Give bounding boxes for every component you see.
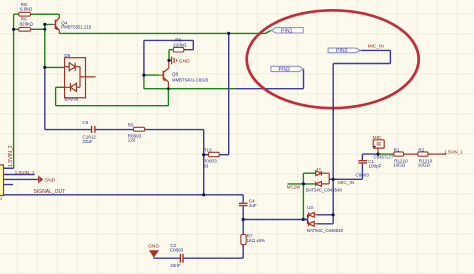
svg-text:MIC_IN: MIC_IN: [368, 43, 385, 49]
svg-text:C0457277: C0457277: [374, 155, 394, 160]
svg-text:10GΩ: 10GΩ: [393, 163, 406, 168]
svg-text:U3: U3: [307, 205, 313, 210]
svg-text:1.5VIN_2: 1.5VIN_2: [8, 145, 14, 167]
svg-text:MC2W: MC2W: [287, 184, 301, 189]
svg-text:10GΩ: 10GΩ: [418, 163, 431, 168]
svg-text:PIN3: PIN3: [336, 48, 348, 54]
svg-text:1KΩ ±5%: 1KΩ ±5%: [247, 238, 265, 243]
svg-text:D5: D5: [64, 53, 70, 58]
svg-text:BAT54C_C845548: BAT54C_C845548: [306, 187, 342, 192]
svg-text:PIN1: PIN1: [281, 28, 293, 34]
svg-text:1uF: 1uF: [249, 203, 257, 208]
svg-text:1.5VIN_1: 1.5VIN_1: [15, 170, 35, 176]
svg-text:R5: R5: [128, 122, 134, 127]
svg-text:820kΩ: 820kΩ: [20, 22, 34, 27]
svg-text:GND: GND: [148, 243, 159, 249]
svg-text:MIC: MIC: [373, 135, 382, 141]
svg-text:MMBT5401-C8326: MMBT5401-C8326: [172, 77, 209, 82]
svg-text:BAT54C_C849548: BAT54C_C849548: [307, 228, 343, 233]
svg-text:R1: R1: [394, 148, 400, 153]
svg-text:MIC_IN: MIC_IN: [338, 180, 355, 186]
svg-text:GND: GND: [179, 59, 190, 65]
svg-text:33: 33: [203, 163, 209, 168]
svg-text:Q6: Q6: [172, 71, 179, 76]
svg-text:120: 120: [128, 137, 136, 142]
svg-text:220kΩ: 220kΩ: [173, 43, 187, 48]
svg-text:33uF: 33uF: [82, 139, 93, 144]
svg-text:1.5VIN_1: 1.5VIN_1: [444, 150, 463, 155]
svg-text:C0603: C0603: [170, 247, 184, 252]
svg-text:100pF: 100pF: [369, 163, 382, 168]
svg-text:C0603: C0603: [355, 172, 369, 177]
svg-text:R10: R10: [203, 147, 212, 152]
svg-text:SIGNAL_OUT: SIGNAL_OUT: [34, 189, 66, 195]
svg-text:GND: GND: [45, 178, 56, 184]
svg-text:BAV99: BAV99: [64, 97, 78, 102]
svg-text:6.8kΩ: 6.8kΩ: [20, 6, 33, 11]
svg-text:C6: C6: [82, 120, 88, 125]
svg-text:R2: R2: [418, 148, 424, 153]
svg-text:PMBT5551,215: PMBT5551,215: [61, 24, 91, 29]
svg-text:22nF: 22nF: [170, 263, 181, 268]
svg-text:PIN2: PIN2: [279, 67, 291, 73]
